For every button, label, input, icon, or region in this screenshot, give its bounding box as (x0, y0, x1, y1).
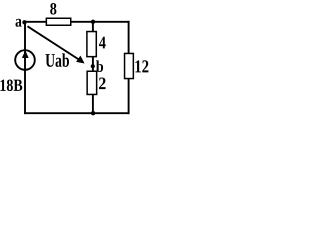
wire right branch (128, 21, 130, 114)
wire left branch (through source) (24, 21, 26, 114)
resistor R1 value 8 (top horizontal) (46, 18, 70, 25)
label b (96, 60, 103, 72)
node b junction dot (91, 64, 95, 68)
label 8 (50, 3, 56, 15)
label 2 (99, 78, 106, 90)
resistor R4 value 12 (right vertical) (125, 53, 134, 78)
wire middle branch (92, 21, 94, 114)
resistor R3 value 2 (middle lower) (87, 71, 97, 94)
label 4 (99, 37, 106, 49)
label a (16, 19, 22, 27)
Uab arrowhead (76, 56, 85, 64)
wire top: node a to top-right corner (25, 21, 130, 23)
resistor R2 value 4 (middle upper) (87, 32, 96, 57)
label 12 (135, 60, 148, 72)
Uab arrow shaft from node a toward node b (28, 26, 80, 60)
junction dot bottom (91, 111, 95, 115)
label 18В (1, 80, 23, 92)
wire bottom (24, 112, 129, 114)
label Uab (46, 53, 70, 67)
junction dot top (R1/R2/R4 node) (91, 20, 95, 24)
EMF source arrowhead (points up, inside circle) (22, 50, 29, 58)
node a junction dot (22, 20, 26, 24)
EMF source E=18В: circle (15, 50, 35, 70)
